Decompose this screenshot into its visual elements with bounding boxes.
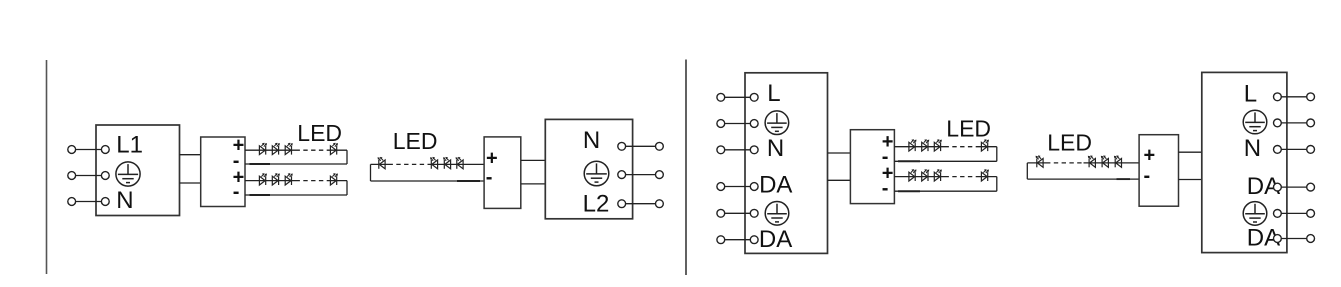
svg-text:DA: DA bbox=[759, 172, 792, 199]
svg-text:-: - bbox=[486, 167, 493, 189]
svg-text:L2: L2 bbox=[583, 191, 610, 218]
svg-text:LED: LED bbox=[1047, 130, 1092, 156]
svg-text:LED: LED bbox=[946, 116, 991, 142]
svg-text:N: N bbox=[583, 127, 600, 154]
svg-text:L1: L1 bbox=[116, 132, 143, 159]
svg-text:N: N bbox=[767, 135, 784, 162]
svg-text:N: N bbox=[116, 187, 133, 214]
svg-text:N: N bbox=[1244, 135, 1261, 162]
svg-text:-: - bbox=[882, 178, 889, 200]
svg-text:+: + bbox=[1144, 145, 1156, 167]
svg-text:L: L bbox=[767, 80, 780, 107]
svg-text:L: L bbox=[1244, 81, 1257, 108]
svg-text:-: - bbox=[1144, 165, 1151, 187]
svg-text:-: - bbox=[233, 181, 240, 203]
svg-text:DA: DA bbox=[759, 226, 792, 253]
svg-text:LED: LED bbox=[393, 128, 438, 154]
svg-text:LED: LED bbox=[297, 120, 342, 146]
